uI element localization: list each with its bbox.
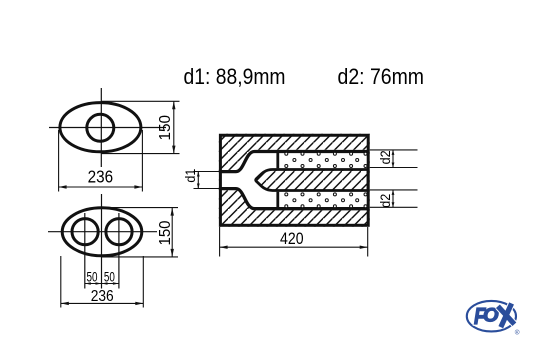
right pipe circle view2 (106, 219, 132, 245)
dimension line 236 view1 (59, 186, 143, 188)
logo X blue bars (498, 303, 515, 327)
svg-text:420: 420 (280, 229, 304, 248)
extension line bottom d1 (194, 188, 220, 190)
dimension d1 (194, 172, 220, 189)
extension line top d2 upper (370, 149, 418, 151)
dimension 420 (220, 227, 368, 257)
extension line bottom 150 view1 (101, 153, 180, 155)
centerline right pipe view2 (118, 213, 120, 289)
svg-text:150: 150 (157, 220, 174, 245)
arrowhead up d1 (197, 172, 200, 177)
arrowhead right 236 view2 (135, 302, 143, 305)
dimension 236 view1 (59, 130, 143, 192)
svg-text:150: 150 (157, 115, 174, 141)
logo ellipse ring (467, 301, 516, 332)
extension line right 420 (367, 227, 369, 257)
extension line left 420 (219, 227, 221, 257)
arrowhead down 150 view2 (171, 249, 174, 257)
perforation dots lower branch (285, 193, 367, 208)
dimension 150 view1 (101, 101, 180, 153)
dimension 50 50 view2 (85, 283, 119, 285)
centerline left pipe view2 (84, 213, 86, 289)
arrowhead down d2 lower (392, 202, 395, 207)
logo FOX text white halo (474, 303, 499, 329)
arrowhead down d2 upper (392, 163, 395, 168)
arrowhead right 236 view1 (134, 185, 142, 188)
extension line top 150 view1 (101, 100, 180, 102)
body hatched interior (219, 134, 370, 227)
dimension line d2 lower (392, 190, 394, 207)
dimension line 150 view1 (173, 101, 175, 153)
pipe lower outer wall (219, 189, 368, 209)
centerline horizontal view1 (49, 127, 166, 129)
arrowhead right 420 (360, 246, 368, 249)
extension line bottom d2 upper (370, 167, 418, 169)
arrowhead left 236 view2 (61, 302, 69, 305)
svg-text:236: 236 (88, 167, 114, 187)
dimension d2 lower (370, 190, 418, 207)
Y-pipe white cavity (219, 150, 368, 211)
svg-text:d2: d2 (378, 150, 393, 164)
svg-text:®: ® (515, 329, 520, 337)
dimension line d2 upper (392, 150, 394, 168)
perforation dots upper branch (285, 152, 367, 167)
body outline (220, 135, 368, 225)
svg-text:50: 50 (87, 269, 98, 284)
centerline vertical central view2 (101, 194, 103, 289)
perforated section cap lower (276, 192, 279, 208)
svg-text:236: 236 (91, 288, 114, 305)
dimension line 50 50 view2 (85, 283, 119, 285)
svg-text:d2: d2 (378, 194, 393, 208)
svg-text:d2: 76mm: d2: 76mm (338, 64, 425, 89)
dimension d2 upper (370, 150, 418, 168)
inner pipe circle view1 (87, 114, 114, 141)
arrowhead up d2 upper (392, 150, 395, 155)
extension line left 236 view1 (58, 130, 60, 192)
arrowhead left 420 (220, 246, 228, 249)
extension line left 236 view2 (60, 256, 62, 308)
arrowhead down 150 view1 (172, 146, 175, 154)
extension line bottom 150 view2 (102, 256, 178, 258)
extension line right 236 view1 (141, 130, 143, 192)
svg-text:d1: d1 (183, 169, 198, 183)
dimension 150 view2 (102, 208, 178, 257)
centerline vertical view1 (100, 88, 102, 167)
oval shell view1 (60, 103, 141, 152)
dimension line 420 (220, 246, 368, 248)
pipe upper outer wall (219, 152, 368, 172)
arrowhead left 236 view1 (59, 185, 67, 188)
dimension line 150 view2 (171, 208, 173, 257)
oval shell view2 (62, 208, 142, 256)
arrowhead up 150 view2 (171, 208, 174, 216)
extension line right 236 view2 (142, 256, 144, 308)
arrowhead centre-right 50 view2 (102, 282, 108, 285)
svg-text:50: 50 (104, 269, 115, 284)
centre wedge (hatched) between branches (256, 170, 368, 191)
dimension line d1 (197, 172, 199, 189)
arrowhead left 50 view2 (85, 282, 91, 285)
extension line top d1 (194, 171, 220, 173)
arrowhead down d1 (197, 184, 200, 189)
dimension 236 view2 (61, 256, 144, 308)
arrowhead centre-left 50 view2 (96, 282, 102, 285)
extension line top 150 view2 (102, 207, 178, 209)
arrowhead right 50 view2 (113, 282, 119, 285)
dimension line 236 view2 (61, 302, 144, 304)
extension line bottom d2 lower (370, 206, 418, 208)
logo X white halo (498, 303, 515, 327)
svg-text:d1: 88,9mm: d1: 88,9mm (184, 64, 286, 89)
centerline horizontal view2 (48, 231, 157, 233)
left pipe circle view2 (72, 219, 98, 245)
arrowhead up 150 view1 (172, 101, 175, 109)
arrowhead up d2 lower (392, 190, 395, 195)
perforated section cap upper (276, 152, 279, 168)
extension line top d2 lower (370, 189, 418, 191)
